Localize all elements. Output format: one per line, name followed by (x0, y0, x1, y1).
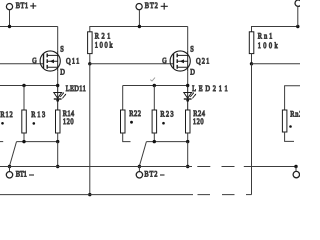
wire top rail cell1 (0, 26, 58, 28)
node R24 bottom junction (186, 140, 189, 143)
node LED11 anode junction (56, 84, 59, 87)
wire bus1 dash segments (197, 166, 234, 168)
svg-text:G: G (162, 56, 167, 65)
svg-text:Q21: Q21 (196, 57, 209, 66)
node R21 gate junction (88, 62, 91, 65)
svg-text:BT1: BT1 (16, 169, 27, 178)
wire bus2 solid left (0, 194, 193, 196)
terminal BTn- (293, 171, 299, 177)
svg-text:D: D (60, 68, 65, 77)
svg-text:BT2: BT2 (144, 169, 157, 178)
node cell1 bus junction (56, 165, 59, 168)
node BT2- junction (138, 165, 141, 168)
svg-text:120: 120 (193, 117, 204, 126)
label R23 value dot (162, 122, 165, 125)
wire R22 bottom stub (123, 133, 131, 142)
svg-text:S: S (60, 45, 64, 54)
wire R12 bottom stub (0, 141, 3, 143)
wire bus1 solid left (0, 166, 192, 168)
svg-text:Rn2: Rn2 (290, 109, 300, 118)
wire Rn1 top corner (252, 27, 300, 32)
wire BTn+ stub (297, 6, 299, 26)
svg-text:BT2: BT2 (145, 1, 158, 10)
wire link cell1 bottom (17, 141, 58, 143)
wire Rn2 bottom stub (285, 132, 294, 141)
wire R21 line to bottom bus (89, 64, 91, 195)
svg-text:R23: R23 (160, 109, 173, 118)
stray check mark (150, 78, 155, 81)
svg-text:Rn1: Rn1 (258, 32, 273, 41)
label R13 value dot (33, 122, 36, 125)
terminal BT2- (136, 172, 142, 178)
wire R23 top lead (153, 86, 155, 111)
wire R14 to bus (57, 142, 59, 167)
node R14 bottom junction (56, 140, 59, 143)
svg-text:R13: R13 (31, 110, 45, 119)
wire Rn1 bottom lead (251, 54, 253, 64)
wire R22 top corner (122, 86, 124, 111)
resistor R22 (121, 110, 126, 133)
wire Q11 drain drop (57, 71, 59, 85)
svg-text:R22: R22 (129, 109, 141, 118)
resistor Rn2 (282, 110, 287, 132)
node R23 bottom junction (153, 140, 156, 143)
node LED21 anode junction (186, 84, 189, 87)
wire R24 to bus (187, 142, 189, 167)
terminal BT2+ (136, 4, 142, 10)
wire BTn- stub (295, 167, 297, 172)
node R13 bottom junction (22, 140, 25, 143)
terminal BT1- (6, 172, 12, 178)
node cell2 bus junction (186, 165, 189, 168)
node BT1+ junction (8, 25, 11, 28)
wire gate celln (252, 63, 301, 65)
wire R23 bottom lead (153, 133, 155, 142)
svg-text:Q11: Q11 (66, 57, 79, 66)
wire BT2- stub (138, 167, 140, 172)
transistor Q21 (170, 51, 190, 71)
node Rn1 gate junction (250, 62, 253, 65)
wire BT2+ stub (138, 10, 140, 27)
wire R21 bottom lead (89, 54, 91, 64)
svg-text:LED211: LED211 (192, 84, 228, 93)
resistor R23 (152, 110, 157, 133)
switch blade cell1 (10, 142, 17, 166)
resistor R21 (88, 32, 93, 54)
switch blade cell2 (139, 142, 146, 166)
label Rn2 value dot (289, 125, 292, 128)
svg-text:120: 120 (63, 117, 74, 126)
wire Q11 source drop (57, 27, 59, 51)
wire link cell2 bottom (146, 141, 187, 143)
diode LED211 (184, 86, 196, 111)
resistor Rn1 (249, 32, 254, 54)
wire R24 bottom lead (187, 133, 189, 142)
wire BT1+ stub (9, 10, 11, 27)
label R22 value dot (130, 121, 133, 124)
wire R13 bottom lead (23, 133, 25, 142)
svg-text:LED11: LED11 (66, 84, 86, 93)
wire R13 top lead (23, 86, 25, 111)
wire bus1 solid right (244, 166, 296, 168)
svg-text:BT1: BT1 (16, 1, 28, 10)
wire bus2 dash segments (198, 194, 235, 196)
svg-text:100k: 100k (95, 41, 114, 50)
node R13 top junction (22, 84, 25, 87)
wire gate cell2 (90, 63, 174, 65)
terminal BT1+ (6, 4, 12, 10)
wire Q21 drain drop (187, 71, 189, 85)
resistor R13 (22, 110, 27, 133)
node R23 top junction (153, 84, 156, 87)
wire Rn1 line to bottom bus (251, 64, 253, 195)
svg-text:R21: R21 (95, 32, 111, 41)
resistor R14 (56, 110, 61, 133)
svg-text:100k: 100k (258, 41, 279, 50)
wire drain rail cell1 (0, 85, 58, 87)
wire BT1- stub (9, 167, 11, 172)
wire R14 bottom lead (57, 133, 59, 142)
node BT2+ junction (138, 25, 141, 28)
node BT1- junction (8, 165, 11, 168)
wire R21 top corner (90, 27, 188, 32)
terminal BTn+ (295, 0, 301, 6)
node bottom bus junction (88, 193, 91, 196)
svg-text:S: S (190, 45, 194, 54)
wire gate cell1 (0, 63, 44, 65)
diode LED11 (54, 86, 66, 111)
node BTn- junction (294, 165, 297, 168)
transistor Q11 (40, 51, 60, 71)
node BTn+ junction (296, 25, 299, 28)
wire drain rail cell2 (123, 85, 188, 87)
resistor R24 (186, 110, 191, 133)
wire Q21 source drop (187, 27, 189, 51)
wire Rn2 top corner (285, 86, 300, 110)
svg-text:G: G (32, 56, 37, 65)
svg-text:R12: R12 (0, 110, 12, 119)
wire bus2 right corner piece (246, 194, 252, 196)
label R12 value dot (1, 122, 4, 125)
svg-text:D: D (190, 68, 195, 77)
